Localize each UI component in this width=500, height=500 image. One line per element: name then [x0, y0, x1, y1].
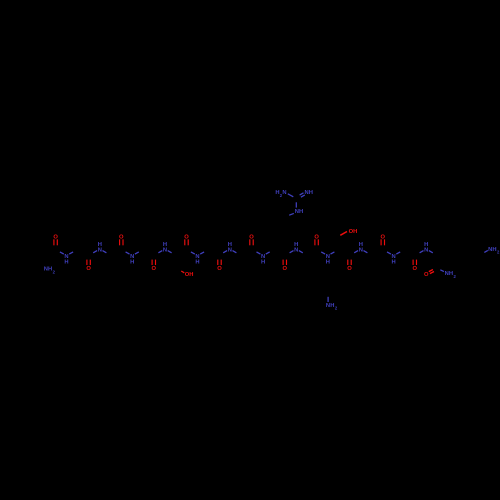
amide nitrogen N2 with H [93, 242, 106, 253]
threonine hydroxyl OH [181, 271, 193, 278]
svg-text:H: H [424, 242, 428, 248]
amide nitrogen N4 with H [158, 242, 171, 253]
svg-text:N: N [424, 247, 428, 253]
carbonyl oxygen O6 [217, 260, 222, 273]
carbonyl oxygen O7 [249, 235, 254, 246]
lysine amine NH2 [326, 297, 338, 311]
C-terminal amide NH2 [440, 270, 456, 279]
amide nitrogen N9 with H [321, 252, 334, 266]
arginine guanidinium =NH [305, 190, 313, 196]
svg-text:H: H [299, 209, 303, 215]
bond guanidinium C to NE [295, 202, 297, 207]
svg-text:O: O [86, 266, 91, 272]
amide nitrogen N5 with H [191, 252, 204, 266]
svg-text:H: H [130, 259, 134, 265]
svg-text:O: O [152, 266, 157, 272]
svg-text:N: N [228, 247, 232, 253]
carbonyl oxygen O2 [86, 260, 91, 273]
svg-text:H: H [492, 247, 496, 253]
arginine guanidinium H2N [275, 190, 286, 198]
arginine NE nitrogen NH [295, 209, 303, 215]
svg-text:O: O [424, 272, 429, 278]
svg-text:O: O [413, 266, 418, 272]
carbonyl oxygen O8 [283, 260, 288, 273]
svg-text:N: N [98, 247, 102, 253]
carbonyl oxygen O11 [381, 235, 386, 246]
svg-text:N: N [282, 190, 286, 196]
svg-text:H: H [309, 190, 313, 196]
svg-text:H: H [64, 259, 68, 265]
serine hydroxyl OH [340, 229, 357, 236]
svg-text:O: O [217, 266, 222, 272]
amide nitrogen N1 with H [60, 252, 73, 266]
svg-text:H: H [163, 242, 167, 248]
N-terminal amine NH2 [44, 267, 56, 275]
svg-text:H: H [48, 267, 52, 273]
double bond C=NH [300, 193, 305, 197]
amide nitrogen N12 with H [420, 242, 433, 253]
svg-text:N: N [294, 247, 298, 253]
amide nitrogen N11 with H [387, 252, 400, 266]
svg-text:N: N [163, 247, 167, 253]
svg-text:O: O [347, 266, 352, 272]
bond H2N to guanidinium C [288, 194, 294, 197]
svg-text:H: H [359, 242, 363, 248]
carbonyl oxygen O10 [347, 260, 352, 273]
amide nitrogen N10 with H [354, 242, 367, 253]
carbonyl oxygen O5 [184, 235, 189, 246]
svg-text:H: H [98, 242, 102, 248]
carbonyl oxygen O12 [413, 260, 418, 273]
amide nitrogen N7 with H [257, 252, 270, 266]
side-chain amine NH2 (right) [484, 247, 500, 255]
svg-text:H: H [330, 303, 334, 309]
bond NE to CD [289, 213, 294, 215]
carbonyl oxygen O4 [152, 260, 157, 273]
svg-text:H: H [449, 271, 453, 277]
carbonyl oxygen O3 [119, 235, 124, 246]
svg-text:H: H [189, 272, 193, 278]
C-terminal amide oxygen O13 [424, 270, 434, 278]
svg-text:H: H [228, 242, 232, 248]
svg-text:H: H [195, 259, 199, 265]
svg-text:H: H [353, 229, 357, 235]
amide nitrogen N6 with H [223, 242, 236, 253]
svg-text:H: H [261, 259, 265, 265]
svg-text:H: H [294, 242, 298, 248]
svg-text:H: H [392, 259, 396, 265]
amide nitrogen N8 with H [290, 242, 303, 253]
svg-text:N: N [359, 247, 363, 253]
svg-text:O: O [283, 266, 288, 272]
carbonyl oxygen O1 [53, 235, 58, 246]
carbonyl oxygen O9 [314, 235, 319, 246]
amide nitrogen N3 with H [126, 252, 139, 266]
svg-text:H: H [326, 259, 330, 265]
